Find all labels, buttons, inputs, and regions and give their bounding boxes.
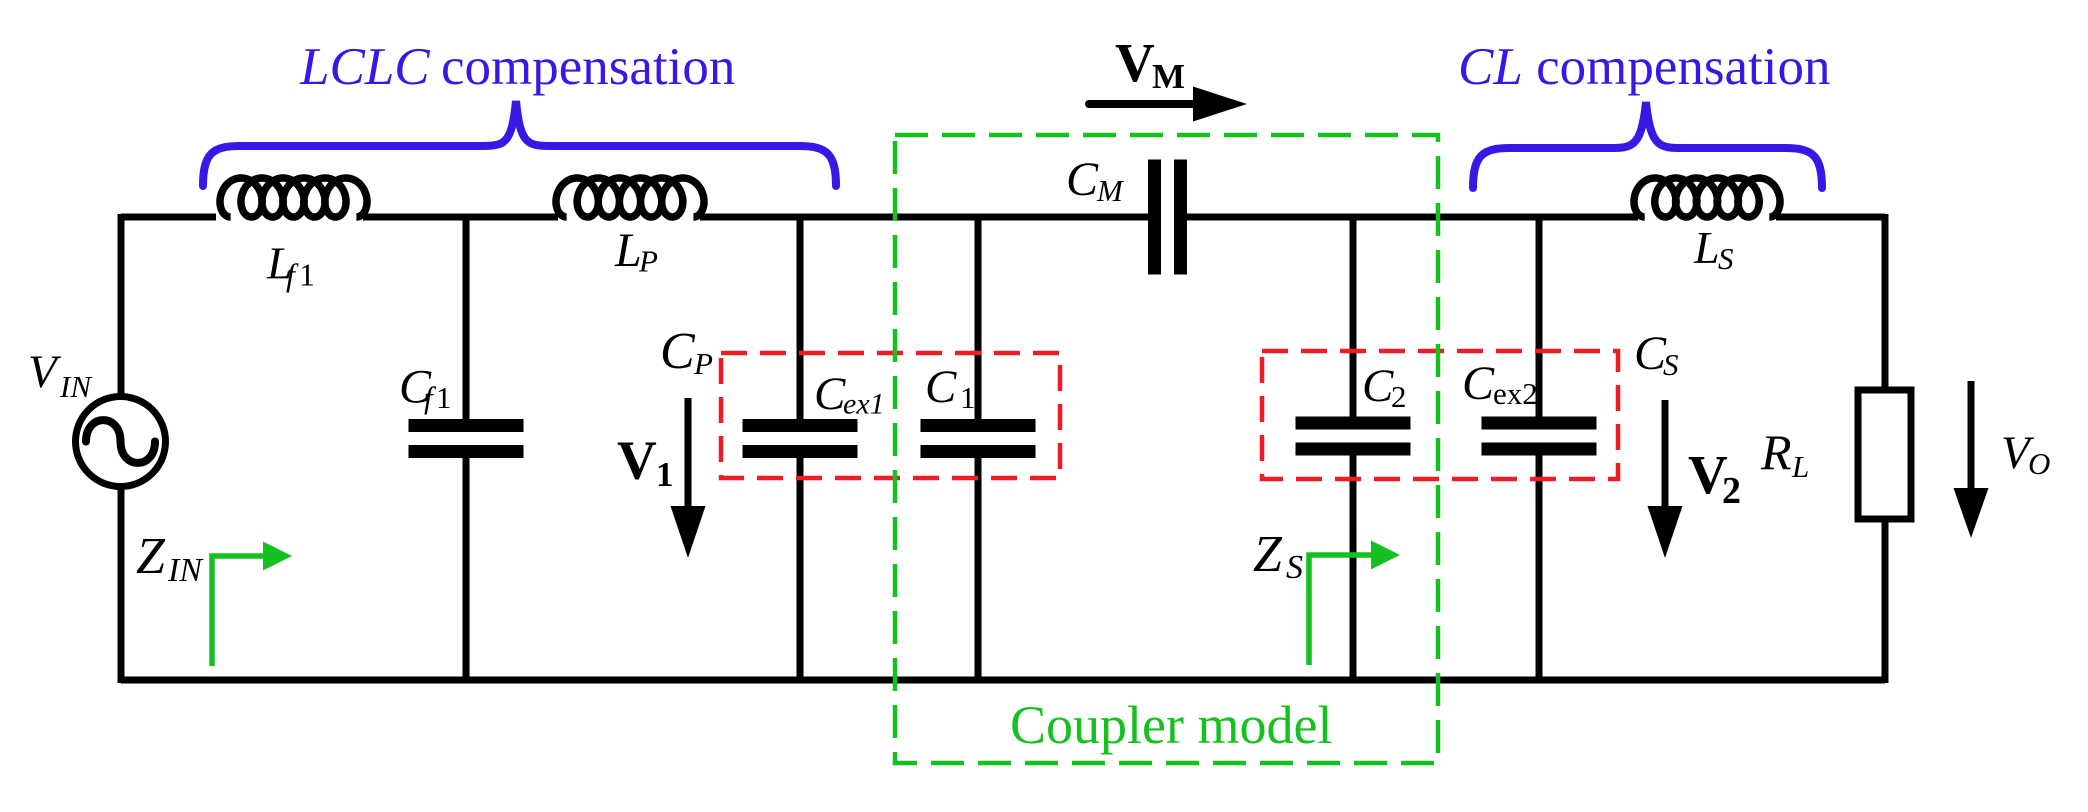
svg-text:Z: Z <box>136 528 166 585</box>
svg-text:L: L <box>614 224 642 277</box>
svg-text:C: C <box>1362 360 1394 412</box>
svg-text:V: V <box>1115 32 1155 93</box>
green arrow ZS <box>1309 555 1374 665</box>
resistor RL <box>1858 390 1911 519</box>
arrow VO <box>1968 381 1975 494</box>
svg-text:ex2: ex2 <box>1493 376 1538 411</box>
svg-text:P: P <box>693 346 713 381</box>
svg-text:L: L <box>1791 449 1809 484</box>
svg-text:ex1: ex1 <box>843 388 885 421</box>
capacitor CM (series, vertical plates) <box>1148 160 1161 275</box>
svg-text:C: C <box>925 361 957 413</box>
inductor Lf1 <box>220 178 367 217</box>
svg-text:IN: IN <box>59 369 93 404</box>
wire: C1 branch upper <box>975 217 982 419</box>
capacitor Cex2 (CS) <box>1482 417 1597 430</box>
blue brace: CL compensation <box>1473 102 1822 188</box>
arrow VM (horizontal) <box>1089 100 1197 108</box>
capacitor C1 <box>921 419 1036 432</box>
wire: right rail lower <box>1882 516 1889 683</box>
svg-text:V: V <box>28 346 62 398</box>
wire: C2 branch lower <box>1350 455 1357 680</box>
wire: top rail Lp to CM <box>700 214 1148 221</box>
wire: bottom rail <box>121 677 1885 684</box>
blue brace: LCLC compensation <box>203 101 836 186</box>
svg-text:C: C <box>660 323 696 380</box>
svg-text:C: C <box>1066 153 1099 206</box>
svg-text:Z: Z <box>1253 526 1283 583</box>
wire: Cf1 branch lower <box>463 458 470 680</box>
svg-text:1: 1 <box>299 257 315 293</box>
AC source VIN <box>76 397 166 487</box>
svg-text:Coupler model: Coupler model <box>1010 695 1332 755</box>
arrow V1 <box>685 398 692 512</box>
svg-text:f: f <box>286 257 299 293</box>
red dashed box around C2 and Cex2 <box>1262 351 1618 479</box>
svg-text:2: 2 <box>1722 470 1741 512</box>
wire: Cex2 branch upper <box>1536 217 1543 417</box>
capacitor C2 <box>1296 417 1411 430</box>
svg-text:compensation: compensation <box>441 38 735 96</box>
red dashed box around Cex1 and C1 <box>721 353 1060 478</box>
svg-text:1: 1 <box>656 455 674 494</box>
svg-text:IN: IN <box>167 552 204 589</box>
svg-text:L: L <box>1693 222 1720 273</box>
wire: top rail between Lf1 and Lp <box>363 214 558 221</box>
green dashed box: coupler model <box>895 135 1438 763</box>
inductor Ls <box>1634 178 1780 217</box>
svg-text:M: M <box>1152 57 1185 96</box>
arrow V2 <box>1662 400 1669 512</box>
svg-text:2: 2 <box>1391 379 1407 414</box>
wire: Cex2 branch lower <box>1536 455 1543 680</box>
capacitor Cex1 (CP) <box>743 419 858 432</box>
wire: top rail CM to Ls <box>1187 214 1638 221</box>
svg-text:LCLC: LCLC <box>299 38 430 96</box>
svg-text:S: S <box>1663 347 1679 382</box>
inductor Lp <box>556 178 704 217</box>
svg-text:S: S <box>1286 549 1303 586</box>
svg-text:C: C <box>814 368 846 420</box>
svg-text:O: O <box>2028 446 2050 481</box>
wire: C2 branch upper <box>1350 217 1357 417</box>
wire: right rail upper <box>1882 214 1889 393</box>
wire: Cf1 branch upper <box>463 217 470 419</box>
wire: left rail lower <box>118 483 125 683</box>
svg-text:1: 1 <box>960 380 976 415</box>
svg-text:S: S <box>1718 241 1734 276</box>
svg-text:P: P <box>638 244 658 279</box>
svg-text:1: 1 <box>436 380 452 415</box>
wire: Cex1 branch lower <box>797 458 804 680</box>
capacitor Cf1 <box>409 419 524 432</box>
wire: top rail left segment <box>121 214 216 221</box>
svg-text:CL compensation: CL compensation <box>1458 38 1830 96</box>
wire: Cex1 branch upper <box>797 217 804 419</box>
svg-text:C: C <box>1462 357 1495 410</box>
svg-text:V: V <box>617 430 657 491</box>
svg-text:M: M <box>1096 173 1125 208</box>
wire: top rail right segment <box>1776 214 1885 221</box>
wire: C1 branch lower <box>975 458 982 680</box>
green arrow ZIN <box>212 556 266 666</box>
svg-text:R: R <box>1760 424 1792 480</box>
wire: left rail upper <box>118 214 125 400</box>
